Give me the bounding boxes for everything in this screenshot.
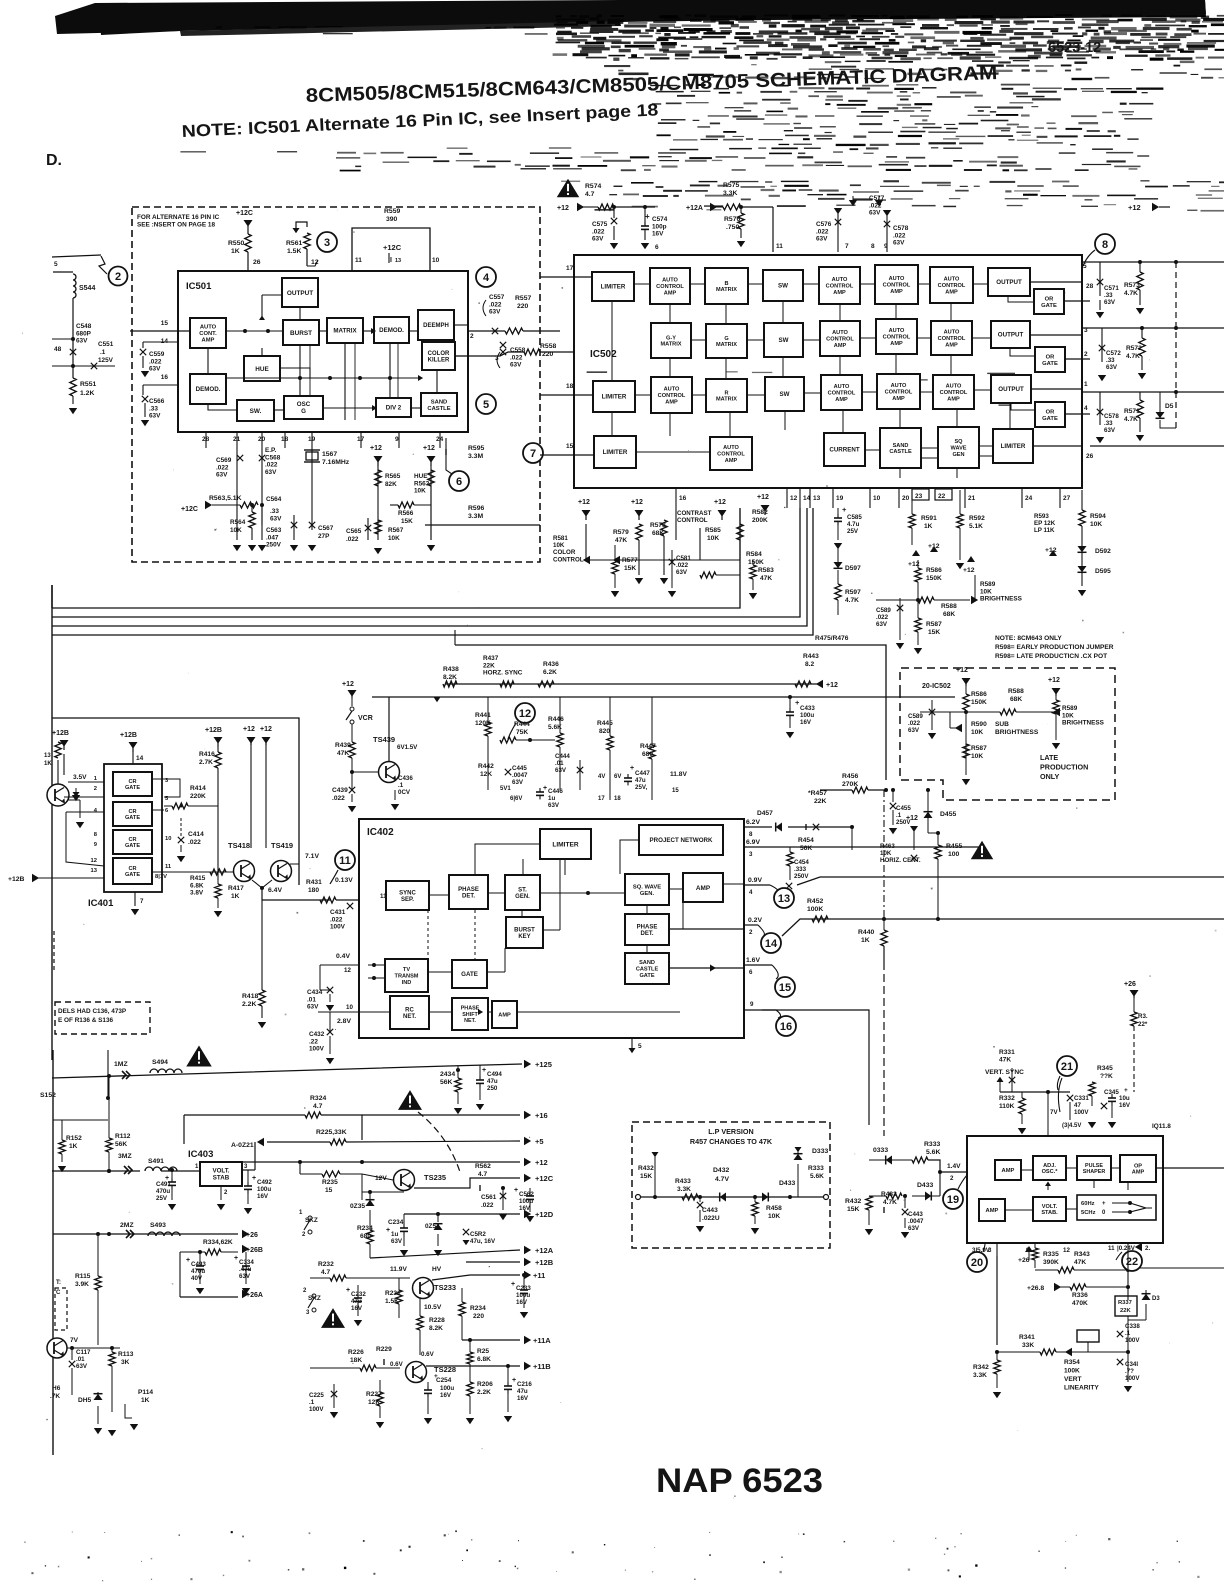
svg-text:CONTROL: CONTROL [826,337,854,343]
circled 15 [775,977,795,997]
svg-text:100K: 100K [807,906,823,913]
svg-text:AMP: AMP [833,290,846,296]
svg-text:.1: .1 [398,782,404,789]
svg-text:+12: +12 [578,499,590,506]
power +12 arrow VCR [348,690,357,697]
block PHASE SHIFT NET [452,998,488,1030]
svg-text:SUB: SUB [995,721,1009,728]
svg-text:NET.: NET. [403,1014,416,1020]
svg-text:+: + [434,1373,438,1380]
svg-text:R589: R589 [1062,705,1078,712]
wire output2 to pin3 [1030,334,1082,336]
svg-text:+12C: +12C [181,506,198,513]
svg-text:R550: R550 [228,240,244,247]
svg-text:C494: C494 [487,1071,502,1078]
svg-text:AMP: AMP [947,396,960,402]
svg-text:*R457: *R457 [808,790,827,797]
svg-text:AUTO: AUTO [946,384,962,390]
svg-text:I: I [390,257,392,264]
power out +26A [180,1296,238,1298]
svg-text:6: 6 [749,969,753,976]
transistor TS228 [406,1362,427,1383]
svg-text:16V: 16V [517,1395,529,1402]
svg-text:100K: 100K [1064,1368,1080,1375]
svg-text:16V: 16V [800,719,812,726]
dashed box LP VERSION [632,1122,830,1248]
svg-text:+12: +12 [260,726,272,733]
svg-text:R595: R595 [468,445,484,452]
svg-text:R341: R341 [1019,1334,1035,1341]
wire +12 rail [242,1161,520,1163]
svg-text:GEN.: GEN. [515,894,530,900]
svg-text:C559: C559 [149,351,165,358]
capacitor C566 .33 63V [142,396,148,402]
svg-text:+16: +16 [535,1111,548,1120]
svg-text:10: 10 [346,1004,353,1011]
svg-text:21: 21 [1061,1061,1073,1073]
svg-text:DH5: DH5 [78,1397,92,1404]
wire phase2 input [669,928,744,930]
svg-text:63V: 63V [76,1363,88,1370]
svg-text:4.7K: 4.7K [845,597,859,604]
svg-text:15: 15 [566,443,574,450]
svg-text:R336: R336 [1072,1292,1088,1299]
svg-text:220: 220 [473,1313,484,1320]
power +12 arrow a [374,456,383,463]
power +12 arrows row [582,510,591,517]
svg-text:1.2K: 1.2K [80,390,94,397]
svg-text:R457 CHANGES TO 47K: R457 CHANGES TO 47K [690,1137,773,1146]
svg-text:AMP: AMP [202,338,215,344]
svg-text:3MZ: 3MZ [118,1153,132,1160]
svg-text:R557: R557 [515,295,531,302]
svg-text:15: 15 [779,982,791,994]
block BURST KEY [506,917,543,948]
svg-text:SKZ: SKZ [305,1217,318,1224]
power +12 arrow b [427,456,436,463]
wire TS235 base [361,1174,363,1200]
block AMP2 IC402 [492,1001,517,1028]
svg-text:1K: 1K [141,1397,150,1404]
svg-text:22K: 22K [483,662,495,669]
svg-text:R332: R332 [999,1095,1015,1102]
svg-text:ONLY: ONLY [1040,772,1060,781]
svg-text:R432: R432 [638,1165,654,1172]
svg-text:.33: .33 [1104,420,1113,427]
svg-text:R206: R206 [477,1381,493,1388]
wire gate4 to base [152,871,233,873]
block OR GATE 3 [1035,402,1065,427]
capacitor C559 .022 63V [140,349,146,355]
wire pin14 stub [143,341,178,343]
svg-text:63V: 63V [512,779,524,786]
svg-text:18: 18 [566,383,574,390]
svg-text:AUTO: AUTO [664,387,680,393]
hook arrow to R561 [296,222,307,230]
svg-text:SAND: SAND [893,443,909,449]
svg-text:TV: TV [403,967,410,973]
svg-text:63V: 63V [1106,364,1118,371]
svg-text:R228: R228 [429,1317,445,1324]
svg-text:47u: 47u [635,777,646,784]
svg-text:C581: C581 [676,555,691,562]
svg-text:11: 11 [355,257,362,264]
circled 22 [1122,1251,1142,1271]
pot R337 22K [1115,1296,1137,1316]
circled 5 [476,394,496,414]
svg-text:C576: C576 [816,221,832,228]
svg-text:C447: C447 [635,770,650,777]
svg-text:R588: R588 [1008,688,1024,695]
svg-text:.047: .047 [266,534,279,541]
wire matrix-demod [319,330,327,332]
svg-text:20: 20 [902,495,910,502]
svg-text:SW: SW [779,337,789,344]
wire loop R559 to pins 11/10 [352,228,430,271]
wire project links [620,840,639,874]
svg-text:10u: 10u [1119,1095,1130,1102]
svg-text:R567: R567 [388,527,404,534]
svg-text:.0047: .0047 [512,772,528,779]
svg-text:+12B: +12B [52,730,69,737]
svg-text:R456: R456 [842,773,858,780]
svg-text:TS419: TS419 [271,841,293,850]
svg-text:R463: R463 [880,843,895,850]
circled 4 [476,267,496,287]
svg-text:63V: 63V [1104,299,1116,306]
svg-text:C234: C234 [388,1219,404,1226]
svg-text:DELS HAD C136, 473P: DELS HAD C136, 473P [58,1008,127,1015]
svg-text:100V: 100V [309,1046,325,1053]
svg-text:5: 5 [483,399,489,411]
block SW2 IC502 [764,323,803,357]
svg-text:.01: .01 [76,1356,85,1363]
wire demod2-sw [208,404,237,410]
svg-text:9: 9 [395,436,399,443]
svg-text:D433: D433 [779,1180,795,1187]
wire sq-phase [646,905,648,914]
block AMP vert2 [979,1199,1005,1221]
svg-text:1K: 1K [69,1143,78,1150]
transistor TS233 [413,1278,434,1299]
vertical IC box [967,1136,1163,1243]
svg-text:+12B: +12B [8,876,25,883]
svg-text:GATE: GATE [125,815,140,821]
wire bus y645 [455,645,886,780]
svg-text:1K: 1K [231,248,240,255]
svg-text:+: + [514,1187,518,1194]
svg-text:7: 7 [140,898,144,905]
svg-text:4.7: 4.7 [585,191,595,198]
block ACA9 IC502 [821,375,862,410]
warning triangle R455 [971,841,994,860]
svg-text:.022: .022 [592,228,605,235]
svg-text:C569: C569 [216,457,232,464]
svg-text:+: + [1102,1201,1106,1207]
wire volt stab out [242,1169,255,1171]
svg-text:R586: R586 [971,691,987,698]
svg-text:R113: R113 [118,1351,134,1358]
svg-text:CONTROL: CONTROL [885,390,913,396]
svg-text:P114: P114 [138,1389,153,1396]
svg-text:SYNC: SYNC [399,890,416,896]
svg-text:11: 11 [339,855,351,867]
power +12 late a [962,678,971,685]
svg-text:8|1V: 8|1V [155,874,167,880]
svg-text:.33: .33 [1106,357,1115,364]
svg-text:R586: R586 [926,567,942,574]
svg-text:5.6K: 5.6K [810,1173,824,1180]
svg-text:7.16MHz: 7.16MHz [322,459,350,466]
svg-text:DEMOD.: DEMOD. [196,386,221,393]
svg-text:DIV 2: DIV 2 [386,405,402,412]
svg-text:+: + [482,1067,486,1074]
wire colorkiller out pin3 [455,355,468,357]
svg-text:48: 48 [54,346,62,353]
circled 13 [774,888,794,908]
power +12 arrows mid [912,550,920,556]
svg-text:R452: R452 [807,898,823,905]
svg-text:1K: 1K [44,761,52,767]
power +12 late b [1052,688,1061,695]
dash vert x455 [454,630,456,645]
svg-text:6: 6 [456,476,462,488]
wire orgate2 out [1065,358,1090,360]
svg-text:1.5K: 1.5K [287,248,301,255]
svg-text:SW.: SW. [250,408,262,415]
svg-text:A-0Z21: A-0Z21 [231,1142,254,1149]
svg-text:AMP: AMP [1132,1170,1145,1176]
power +26 top right [1130,990,1139,997]
svg-text:R335: R335 [1043,1251,1059,1258]
svg-text:100V: 100V [309,1406,324,1413]
wire pulse down [1093,1180,1095,1188]
svg-text:2.2K: 2.2K [242,1001,256,1008]
svg-text:OSC: OSC [297,401,311,408]
svg-text:.333: .333 [794,866,807,873]
svg-text:R414: R414 [190,785,206,792]
wire tv transm [368,964,385,966]
svg-text:+5: +5 [535,1137,544,1146]
svg-text:63V: 63V [391,1238,403,1245]
svg-text:0CV: 0CV [398,789,411,796]
svg-text:27P: 27P [318,533,330,540]
svg-text:.0047: .0047 [908,1218,924,1225]
svg-text:CURRENT: CURRENT [829,447,859,454]
svg-text:MATRIX: MATRIX [660,342,681,348]
block VOLT STAB vert [1033,1197,1066,1221]
block OR GATE 2 [1035,347,1065,372]
svg-text:1MZ: 1MZ [114,1061,128,1068]
svg-text:HORIZ. CENT.: HORIZ. CENT. [880,857,921,864]
wire limiter links [522,859,524,875]
svg-text:9: 9 [884,243,888,250]
svg-text:+12C: +12C [236,210,253,217]
svg-text:.33: .33 [149,405,158,412]
inductor S494 [150,1069,182,1073]
svg-text:100V: 100V [1074,1109,1089,1116]
svg-text:AUTO: AUTO [891,383,907,389]
svg-text:R443: R443 [803,653,819,660]
block PHASE DET 2 [625,914,669,945]
wire st-burst [521,910,523,917]
svg-text:R558: R558 [540,343,556,350]
svg-text:3.3K: 3.3K [973,1372,987,1379]
pot vert linearity [1077,1330,1099,1342]
svg-text:R225,33K: R225,33K [316,1129,347,1136]
svg-text:R441: R441 [475,712,491,719]
svg-text:1K: 1K [231,893,240,900]
block ACA3 IC502 [875,265,918,304]
wire pin26 [247,252,249,271]
svg-text:+26B: +26B [246,1247,263,1254]
svg-text:0.13V: 0.13V [335,877,353,884]
pin 22 boxed [935,489,952,500]
circled 21 [1057,1056,1077,1076]
svg-text:AMP: AMP [696,885,711,892]
block AUTO CONT AMP [190,318,226,348]
svg-text:AMP: AMP [1002,1168,1015,1174]
svg-text:R574: R574 [585,183,601,190]
svg-text:BRIGHTNESS: BRIGHTNESS [980,596,1023,603]
svg-text:47K: 47K [615,537,627,544]
svg-text:C5R2: C5R2 [470,1231,486,1238]
svg-text:AMP: AMP [665,399,678,405]
svg-text:.33: .33 [1104,292,1113,299]
svg-text:GATE: GATE [1042,416,1058,422]
svg-text:10K: 10K [980,588,992,595]
svg-text:R436: R436 [543,661,559,668]
wire orgate1 out [1064,300,1090,302]
capacitor C572 .33 63V [1099,345,1105,351]
wire verticals lower [299,345,301,396]
svg-text:IC403: IC403 [188,1149,213,1160]
inductor S544 [53,271,73,273]
svg-text:R585: R585 [705,527,721,534]
circled 19 [943,1189,963,1209]
svg-text:10K: 10K [707,535,719,542]
svg-text:+12: +12 [423,445,435,452]
svg-text:40V: 40V [191,1275,203,1282]
svg-text:GATE: GATE [639,973,654,979]
svg-text:CR: CR [128,837,136,843]
svg-text:.01: .01 [555,760,564,767]
wire input pin15 [130,330,190,332]
svg-text:10K: 10K [553,542,565,549]
svg-text:LIMITER: LIMITER [603,449,628,456]
svg-text:R563: R563 [414,480,430,487]
block CR GATE 4 [113,858,152,884]
svg-text:0.4V: 0.4V [336,953,350,960]
svg-text:63V: 63V [908,1225,920,1232]
svg-text:25V,: 25V, [635,784,647,791]
svg-text:AUTO: AUTO [944,277,960,283]
svg-text:+: + [346,1287,350,1294]
svg-text:110K: 110K [999,1103,1015,1110]
svg-text:C433: C433 [800,705,815,712]
svg-text:R416: R416 [199,751,215,758]
svg-text:ST.: ST. [518,887,527,893]
wire 3MZ rail [107,1169,111,1173]
svg-text:63V: 63V [510,362,522,369]
svg-text:IC501: IC501 [186,281,212,292]
svg-text:C225: C225 [309,1392,324,1399]
svg-text:63V: 63V [548,802,560,809]
svg-text:MATRIX: MATRIX [716,287,737,293]
svg-text:KEY: KEY [518,934,530,940]
svg-text:8.2K: 8.2K [429,1325,443,1332]
svg-text:C565: C565 [346,528,362,535]
svg-text:14: 14 [136,755,144,762]
svg-text:.022: .022 [332,795,345,802]
svg-text:125V: 125V [98,357,114,364]
block DEMOD 2 [190,374,226,404]
svg-text:10K: 10K [768,1213,780,1220]
transistor TS235 [394,1170,415,1191]
svg-text:68K: 68K [1010,696,1022,703]
svg-text:R229: R229 [376,1346,392,1353]
svg-text:100u: 100u [800,712,814,719]
svg-text:.022: .022 [893,232,906,239]
svg-text:56K: 56K [800,845,812,852]
svg-text:+12C: +12C [535,1174,554,1183]
svg-text:220: 220 [517,303,529,310]
svg-text:CONTROL: CONTROL [656,284,684,290]
svg-text:PHASE: PHASE [461,1006,480,1012]
svg-text:+: + [512,1377,516,1384]
svg-text:C561: C561 [481,1194,497,1201]
svg-text:IC502: IC502 [590,349,617,360]
svg-text:R446: R446 [548,716,564,723]
terminal circle right [824,1195,829,1200]
block COLOR KILLER [422,342,455,370]
block OSC G [284,396,323,419]
svg-text:FOR ALTERNATE 16 PIN IC: FOR ALTERNATE 16 PIN IC [137,214,220,221]
wire y877 long [797,877,1224,885]
svg-text:CONTRAST: CONTRAST [677,510,712,517]
power out +12A [370,1250,520,1258]
block LIMITER4 IC502 [993,429,1033,463]
svg-text:2: 2 [950,1175,954,1182]
wire y919 long [782,919,1224,936]
circled 8 [1095,234,1115,254]
svg-text:R475/R476: R475/R476 [815,635,849,642]
svg-text:+12: +12 [370,445,382,452]
svg-text:CR: CR [128,809,136,815]
svg-text:3.3M: 3.3M [468,513,483,520]
svg-text:CASTLE: CASTLE [889,449,912,455]
block TV TRANSM IND [385,959,428,992]
svg-text:R591: R591 [921,515,937,522]
svg-text:R597: R597 [845,589,861,596]
svg-text:150K: 150K [926,575,942,582]
svg-text:BRIGHTNESS: BRIGHTNESS [995,729,1039,736]
svg-text:CASTLE: CASTLE [427,406,450,412]
block AMP IC402 [683,873,723,902]
svg-text:150K: 150K [748,559,764,566]
svg-text:15K: 15K [624,565,636,572]
svg-text:19: 19 [947,1194,959,1206]
svg-text:??K: ??K [1100,1073,1113,1080]
wire gate2 out [152,809,164,811]
svg-text:15K: 15K [928,629,940,636]
svg-text:LIMITER: LIMITER [552,841,579,848]
svg-text:TS418: TS418 [228,841,250,850]
svg-text:4.7V: 4.7V [715,1176,729,1183]
svg-text:C551: C551 [98,341,114,348]
wire OUTPUT down [299,307,301,320]
svg-text:SHIFT: SHIFT [462,1012,478,1018]
